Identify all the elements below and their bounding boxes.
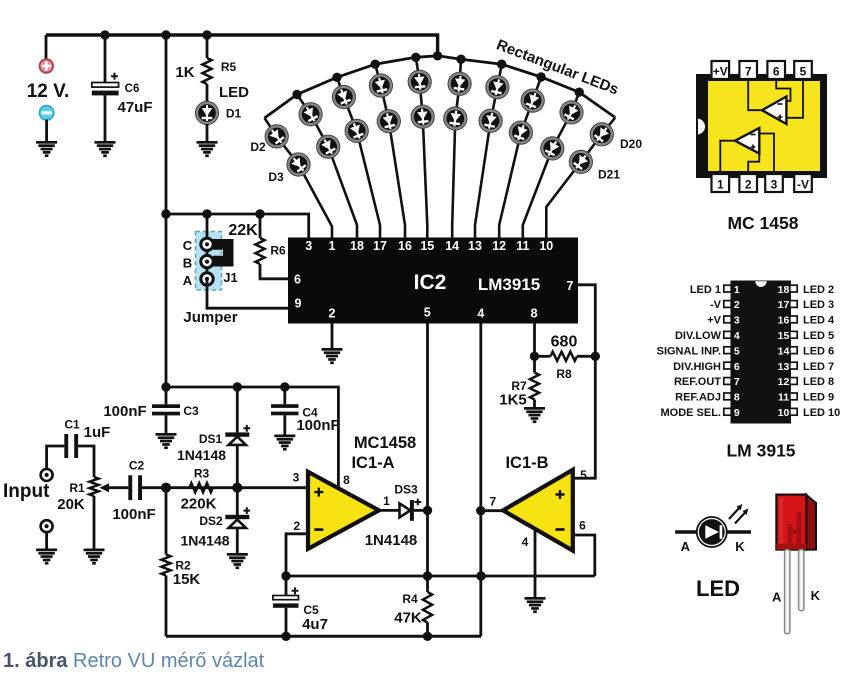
wire IC2 pin 5 / signal node xyxy=(426,324,429,577)
svg-text:16: 16 xyxy=(398,239,412,253)
svg-text:100nF: 100nF xyxy=(103,403,146,420)
svg-text:DIV.HIGH: DIV.HIGH xyxy=(673,361,721,373)
wire LED anode arc xyxy=(265,56,616,118)
node arc junction 2 xyxy=(332,73,341,82)
wire C3 to ground xyxy=(165,415,168,433)
svg-text:22K: 22K xyxy=(228,222,258,239)
svg-text:6: 6 xyxy=(294,273,301,287)
node rail/C6 xyxy=(100,30,109,39)
svg-text:A: A xyxy=(772,590,782,605)
svg-text:C5: C5 xyxy=(303,603,319,617)
diode DS3 1N4148 xyxy=(400,503,411,517)
ground C4 xyxy=(274,435,295,451)
svg-text:18: 18 xyxy=(350,239,364,253)
pin 10 LM3915 xyxy=(790,408,797,415)
LED D2 xyxy=(261,120,293,152)
pin 1 LM3915 xyxy=(724,285,731,292)
wire +12V top rail xyxy=(46,33,438,36)
IC package diagram LM3915 xyxy=(731,281,792,424)
node rail/R5 xyxy=(202,30,211,39)
LED D9 xyxy=(375,107,402,134)
svg-text:7: 7 xyxy=(734,376,740,388)
svg-text:3: 3 xyxy=(771,178,778,192)
resistor R8 680 xyxy=(551,352,578,361)
resistor R2 15K xyxy=(165,488,168,555)
jumper shorting cap C-B xyxy=(213,239,234,267)
svg-text:15: 15 xyxy=(420,239,434,253)
svg-text:7: 7 xyxy=(567,279,574,293)
svg-text:1N4148: 1N4148 xyxy=(177,447,226,463)
pin 17 LM3915 xyxy=(790,301,797,308)
ground IC1-B pin4 xyxy=(525,597,546,613)
wire R2 to bottom rail xyxy=(165,576,168,637)
svg-text:DS2: DS2 xyxy=(199,514,223,528)
svg-text:1: 1 xyxy=(329,239,336,253)
wire LED chain 8 xyxy=(499,77,541,238)
capacitor C5 4u7 xyxy=(285,576,288,596)
svg-text:REF.OUT: REF.OUT xyxy=(674,376,721,388)
wire R8 right lead xyxy=(577,355,595,358)
pin 12 LM3915 xyxy=(790,378,797,385)
input jack terminal shield xyxy=(41,520,53,532)
svg-text:C: C xyxy=(183,238,193,253)
svg-text:6: 6 xyxy=(734,361,740,373)
svg-text:LED: LED xyxy=(696,576,740,601)
wire rail to R6 xyxy=(259,214,262,238)
pin 2 LM3915 xyxy=(724,301,731,308)
svg-text:1uF: 1uF xyxy=(84,424,111,441)
MC1458 internal wiring xyxy=(748,79,762,110)
wire IC1-A output to DS3 xyxy=(379,509,400,512)
svg-text:15: 15 xyxy=(778,330,790,342)
pin -V box MC1458 bottom xyxy=(794,174,812,192)
svg-text:2: 2 xyxy=(734,299,740,311)
MC1458 notch xyxy=(697,118,706,136)
svg-text:1N4148: 1N4148 xyxy=(365,532,418,549)
LED D8 xyxy=(367,72,394,99)
wire jack to C1 xyxy=(47,446,65,469)
wire C1 to R1 xyxy=(78,446,94,477)
node arc junction 8 xyxy=(536,72,545,81)
svg-text:2: 2 xyxy=(293,519,300,533)
svg-text:1K: 1K xyxy=(175,64,194,81)
wire IC1-B pin 6 xyxy=(573,535,595,576)
svg-text:9: 9 xyxy=(734,407,740,419)
node rail/J1 xyxy=(202,209,211,218)
wire signal line C2 to IC1-A pin3 xyxy=(142,486,308,489)
jumper pad C xyxy=(201,238,213,250)
wire LED chain 7 xyxy=(475,64,502,237)
svg-text:17: 17 xyxy=(778,299,790,311)
svg-text:2: 2 xyxy=(329,307,336,321)
svg-text:DIV.LOW: DIV.LOW xyxy=(675,330,722,342)
resistor R5 1K xyxy=(202,58,211,84)
ground R7 xyxy=(524,407,545,423)
svg-text:R5: R5 xyxy=(221,60,237,74)
wiper arrow into R1 xyxy=(108,486,128,489)
svg-text:IC1-B: IC1-B xyxy=(505,454,548,472)
capacitor C2 100nF xyxy=(128,475,132,500)
svg-text:LED 2: LED 2 xyxy=(803,284,834,296)
svg-text:3: 3 xyxy=(305,239,312,253)
minus terminal xyxy=(39,106,53,120)
IC U2 LM3915 body xyxy=(288,238,578,324)
pin 7 box MC1458 top xyxy=(739,61,757,79)
svg-text:4: 4 xyxy=(477,307,484,321)
svg-text:SIGNAL INP.: SIGNAL INP. xyxy=(657,345,721,357)
wire IC2 pin 2 to ground xyxy=(331,324,334,349)
resistor R2 15K xyxy=(161,555,170,576)
wire R7 top lead xyxy=(533,356,536,372)
LM3915 notch xyxy=(755,281,766,287)
wire IC1-A pin 2 xyxy=(286,534,308,576)
wire IC1-B pin 4 to ground xyxy=(534,530,537,599)
wire pad A to IC2 pin 9 xyxy=(207,279,289,308)
ground R1 xyxy=(84,549,105,565)
pin 9 LM3915 xyxy=(724,408,731,415)
wire feedback line pin2 to pin6 xyxy=(286,575,595,578)
node arc junction 1 xyxy=(292,90,301,99)
node R4/bottom rail xyxy=(423,632,432,641)
node R3/DS1/DS2 xyxy=(232,483,242,493)
svg-text:LED 10: LED 10 xyxy=(803,407,840,419)
svg-text:15K: 15K xyxy=(173,571,201,588)
ground IC2 pin2 xyxy=(322,348,343,364)
wire minus terminal to ground xyxy=(45,120,48,142)
svg-text:11: 11 xyxy=(516,239,529,253)
svg-text:D21: D21 xyxy=(598,168,620,182)
wire bottom rail xyxy=(166,635,481,638)
LED light arrows xyxy=(729,507,746,524)
svg-text:100nF: 100nF xyxy=(296,417,339,434)
op-amp U1B MC1458 xyxy=(503,470,573,551)
svg-text:LED 8: LED 8 xyxy=(803,376,834,388)
wire rail drop to LED arc apex xyxy=(436,33,439,56)
svg-text:LED 6: LED 6 xyxy=(803,345,834,357)
resistor R6 22K xyxy=(255,238,264,264)
op-amp symbol A inside MC1458 xyxy=(762,97,786,125)
svg-text:14: 14 xyxy=(445,239,459,253)
pin 2 box MC1458 bottom xyxy=(739,174,757,192)
wire R7 to ground xyxy=(533,400,536,408)
svg-text:47uF: 47uF xyxy=(117,99,152,116)
svg-text:D1: D1 xyxy=(226,107,242,121)
svg-text:D2: D2 xyxy=(250,140,266,154)
capacitor C1 1uF xyxy=(64,434,68,458)
node rail/feed xyxy=(161,30,170,39)
svg-text:1: 1 xyxy=(383,494,390,508)
LED D17 xyxy=(506,118,536,148)
pin 13 LM3915 xyxy=(790,362,797,369)
svg-text:5: 5 xyxy=(800,65,807,79)
wire +12V vertical feed xyxy=(165,35,168,387)
pin 3 LM3915 xyxy=(724,316,731,323)
svg-text:14: 14 xyxy=(778,345,790,357)
svg-text:K: K xyxy=(735,539,745,554)
ground jack xyxy=(36,549,57,565)
svg-text:MC 1458: MC 1458 xyxy=(727,213,798,233)
svg-text:LED: LED xyxy=(219,84,249,101)
wire LED chain 3 xyxy=(337,77,380,237)
svg-text:5: 5 xyxy=(734,345,740,357)
node R8/pin7 column xyxy=(591,352,600,361)
node DS3/pin5 xyxy=(423,506,432,515)
svg-text:DS3: DS3 xyxy=(394,483,418,497)
svg-text:R6: R6 xyxy=(270,244,286,258)
resistor R7 1K5 xyxy=(530,373,539,400)
svg-text:11: 11 xyxy=(778,392,789,404)
svg-text:R4: R4 xyxy=(402,592,418,606)
node C5/bottom rail xyxy=(281,632,290,641)
LED D19 xyxy=(537,133,568,164)
rectangular LED legs xyxy=(785,550,790,634)
svg-text:4: 4 xyxy=(522,535,529,549)
LED D5 xyxy=(313,131,344,162)
wire C6 to ground xyxy=(104,95,107,141)
svg-text:+V: +V xyxy=(713,65,728,79)
pin 5 LM3915 xyxy=(724,347,731,354)
wire IC2 pin 4 / IC1-B output column xyxy=(479,324,482,637)
LED D4 xyxy=(295,99,326,130)
pin 6 LM3915 xyxy=(724,362,731,369)
wire IC2 pin 7 to IC1-B pin 5 xyxy=(573,285,596,478)
svg-text:B: B xyxy=(183,256,192,271)
wire LED chain 9 xyxy=(523,92,579,237)
LED D18 xyxy=(556,97,587,128)
IC package diagram MC1458 xyxy=(696,74,827,178)
svg-text:6: 6 xyxy=(579,519,586,533)
svg-text:MC1458: MC1458 xyxy=(354,434,416,452)
wire IC2 pin 8 down xyxy=(533,324,536,357)
LED D21 xyxy=(565,146,597,178)
wire D1 to ground xyxy=(206,124,209,141)
svg-text:IC1-A: IC1-A xyxy=(351,454,394,472)
wire LED chain 1 xyxy=(265,118,333,238)
svg-text:-V: -V xyxy=(710,299,722,311)
svg-text:1: 1 xyxy=(717,178,724,192)
pin 8 LM3915 xyxy=(724,393,731,400)
svg-text:10: 10 xyxy=(778,407,790,419)
svg-text:R8: R8 xyxy=(556,367,572,381)
capacitor C4 100nF xyxy=(283,387,286,404)
diode DS2 1N4148 xyxy=(236,488,239,553)
capacitor C3 100nF xyxy=(165,387,168,404)
pin 3 box MC1458 bottom xyxy=(765,174,783,192)
svg-text:220K: 220K xyxy=(181,496,217,513)
svg-text:18: 18 xyxy=(778,284,790,296)
wire IC1-B output xyxy=(481,509,504,512)
svg-text:7: 7 xyxy=(489,495,496,509)
LED D7 xyxy=(342,116,372,146)
svg-text:-V: -V xyxy=(797,178,809,192)
svg-text:LED 4: LED 4 xyxy=(803,315,835,327)
svg-text:+V: +V xyxy=(707,315,721,327)
svg-text:C2: C2 xyxy=(129,459,145,473)
svg-text:2: 2 xyxy=(745,178,752,192)
svg-text:680: 680 xyxy=(551,334,578,351)
pin 15 LM3915 xyxy=(790,331,797,338)
svg-text:7: 7 xyxy=(745,65,752,79)
wire R6 to IC2 pin 6 xyxy=(260,264,289,279)
svg-text:C3: C3 xyxy=(183,404,199,418)
node arc junction 6 xyxy=(456,55,465,64)
LED D16 xyxy=(518,86,548,116)
svg-text:3: 3 xyxy=(734,315,740,327)
node outcol/feedback xyxy=(476,571,485,580)
svg-text:J1: J1 xyxy=(223,270,237,285)
wire rail to R5 xyxy=(206,35,209,58)
ground DS2 xyxy=(227,553,248,569)
LED D11 xyxy=(410,104,435,129)
wire rail to jumper pads xyxy=(206,214,209,279)
svg-text:K: K xyxy=(811,588,821,603)
pin 18 LM3915 xyxy=(790,285,797,292)
node C2/R2/R3 xyxy=(161,483,171,493)
svg-text:1. ábra Retro VU mérő vázlat: 1. ábra Retro VU mérő vázlat xyxy=(3,650,265,672)
pin 6 box MC1458 top xyxy=(767,61,785,79)
svg-text:LED 9: LED 9 xyxy=(803,392,834,404)
LED symbol diagram xyxy=(675,530,697,533)
jumper pad B xyxy=(201,255,213,267)
svg-text:13: 13 xyxy=(778,361,790,373)
wire LED chain 6 xyxy=(452,59,461,237)
svg-text:8: 8 xyxy=(531,307,538,321)
node pin8/R8/R7 xyxy=(530,352,539,361)
wire +V rail to IC2 pin 3 xyxy=(166,214,309,238)
node arc junction 9 xyxy=(575,88,584,97)
svg-text:C1: C1 xyxy=(64,418,80,432)
svg-text:MODE SEL.: MODE SEL. xyxy=(660,407,721,419)
svg-text:1N4148: 1N4148 xyxy=(180,533,229,549)
svg-text:12 V.: 12 V. xyxy=(27,81,70,102)
wire LED chain 5 xyxy=(416,57,428,237)
svg-text:16: 16 xyxy=(778,315,790,327)
svg-text:10: 10 xyxy=(539,239,553,253)
svg-text:LM 3915: LM 3915 xyxy=(726,441,795,461)
LED D14 xyxy=(484,74,511,101)
wire R1 to ground xyxy=(93,496,96,549)
svg-text:4u7: 4u7 xyxy=(302,616,328,633)
node DS3col/feedback xyxy=(423,571,432,580)
wire C4 to ground xyxy=(283,415,286,434)
svg-text:8: 8 xyxy=(343,473,350,487)
ground D1 xyxy=(197,141,218,157)
svg-text:LM3915: LM3915 xyxy=(478,275,540,294)
wire LED chain 2 xyxy=(297,95,357,238)
resistor R3 220K xyxy=(189,483,212,492)
wire C5 to bottom rail xyxy=(285,608,288,637)
svg-text:D20: D20 xyxy=(620,137,642,151)
svg-text:8: 8 xyxy=(734,392,740,404)
svg-text:9: 9 xyxy=(295,297,302,311)
resistor R4 47K xyxy=(426,576,429,592)
svg-text:IC2: IC2 xyxy=(414,271,447,294)
svg-text:20K: 20K xyxy=(57,496,85,513)
resistor R1 20K xyxy=(89,477,98,496)
svg-text:13: 13 xyxy=(468,239,482,253)
resistor R4 47K xyxy=(423,592,432,623)
svg-text:100nF: 100nF xyxy=(112,506,155,523)
svg-text:DS1: DS1 xyxy=(199,432,223,446)
LED D6 xyxy=(329,82,359,112)
node rail/R6 xyxy=(255,209,264,218)
svg-text:47K: 47K xyxy=(394,610,422,627)
wire +12V to plus terminal xyxy=(45,35,48,60)
ground power minus xyxy=(36,141,57,157)
diode DS1 1N4148 xyxy=(225,432,249,436)
svg-text:6: 6 xyxy=(773,65,780,79)
svg-text:1: 1 xyxy=(734,284,740,296)
svg-text:R3: R3 xyxy=(194,467,210,481)
wire op-amp +V rail xyxy=(166,387,338,489)
wire R8 left lead xyxy=(535,355,551,358)
op-amp U1A MC1458 xyxy=(308,472,379,549)
svg-text:Jumper: Jumper xyxy=(183,309,237,326)
svg-text:LED 5: LED 5 xyxy=(803,330,834,342)
ground C6 xyxy=(95,141,116,157)
LED D1 xyxy=(196,102,219,125)
capacitor C6 47uF xyxy=(92,83,119,88)
pin 11 LM3915 xyxy=(790,393,797,400)
node arc junction 5 xyxy=(433,51,442,60)
LED D20 xyxy=(586,118,618,150)
wire R4 to bottom rail xyxy=(426,623,429,637)
svg-text:1K5: 1K5 xyxy=(499,392,527,409)
wire jack shield to ground xyxy=(45,532,48,548)
pin 16 LM3915 xyxy=(790,316,797,323)
svg-text:C6: C6 xyxy=(125,83,140,95)
svg-text:LED 3: LED 3 xyxy=(803,299,834,311)
svg-text:5: 5 xyxy=(424,306,431,320)
node pin4/output xyxy=(476,506,485,515)
wire R5 to D1 xyxy=(206,84,209,102)
pin 7 LM3915 xyxy=(724,378,731,385)
svg-text:3: 3 xyxy=(293,471,300,485)
wire rail to C6 xyxy=(104,35,107,83)
node rail/C4 xyxy=(280,382,289,391)
node feed/C3 xyxy=(161,382,170,391)
pin 1 box MC1458 bottom xyxy=(712,174,730,192)
svg-text:R1: R1 xyxy=(69,481,85,495)
rectangular LED body xyxy=(806,495,816,550)
node feed/jumper rail xyxy=(161,209,170,218)
svg-text:A: A xyxy=(681,539,691,554)
op-amp symbol B inside MC1458 xyxy=(735,128,759,154)
svg-text:D3: D3 xyxy=(268,170,284,184)
svg-text:A: A xyxy=(183,273,193,288)
pin 4 LM3915 xyxy=(724,331,731,338)
svg-text:5: 5 xyxy=(580,468,587,482)
LED D15 xyxy=(477,107,504,134)
svg-text:LED 7: LED 7 xyxy=(803,361,834,373)
ground C3 xyxy=(156,433,177,449)
jumper J1 block xyxy=(196,232,222,291)
LED D13 xyxy=(442,106,468,132)
jumper pad A xyxy=(201,273,213,285)
pin 5 box MC1458 top xyxy=(794,61,812,79)
node arc junction 3 xyxy=(371,59,380,68)
svg-text:12: 12 xyxy=(492,239,506,253)
svg-text:LED 1: LED 1 xyxy=(690,284,721,296)
svg-text:4: 4 xyxy=(734,330,740,342)
input jack terminal hot xyxy=(41,469,53,481)
svg-text:REF.ADJ: REF.ADJ xyxy=(675,392,721,404)
LED D12 xyxy=(447,71,473,97)
wire rail to DS1 to signal line xyxy=(236,387,239,488)
svg-text:12: 12 xyxy=(778,376,790,388)
plus terminal xyxy=(40,59,54,73)
wire LED chain 4 xyxy=(375,64,405,237)
